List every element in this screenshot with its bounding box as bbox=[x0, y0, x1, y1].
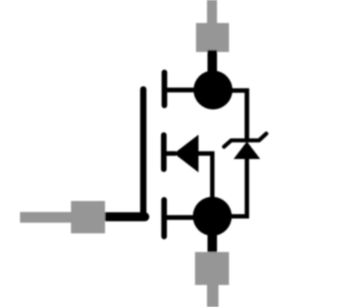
node source junction (bottom dot) bbox=[193, 197, 232, 236]
transistor Q1 drain contact bar bbox=[162, 72, 168, 105]
transistor Q1 source contact bar bbox=[161, 200, 167, 237]
transistor Q1 gate line bbox=[140, 89, 146, 214]
wire source stub bbox=[164, 215, 198, 220]
transistor Q1 body contact bar bbox=[161, 135, 167, 169]
wire body stub bbox=[164, 151, 176, 156]
body diode D1 arrow bbox=[174, 135, 199, 173]
gate terminal pin (left, gray) bbox=[20, 201, 105, 233]
wire from drain node to zener cathode bbox=[231, 91, 247, 141]
wire from top pin to drain node bbox=[208, 50, 218, 75]
drain terminal pin (top, gray) bbox=[196, 0, 229, 52]
wire from source node to bottom pin bbox=[208, 230, 218, 254]
source terminal pin (bottom, gray) bbox=[195, 252, 229, 307]
zener diode Z1 anode triangle bbox=[234, 142, 261, 160]
wire gate (thick, from gate pin) bbox=[103, 212, 145, 221]
wire drain stub bbox=[164, 88, 198, 93]
wire from zener anode to source node bbox=[230, 157, 247, 216]
node drain junction (top dot) bbox=[194, 71, 233, 110]
wire from body diode to source node bbox=[197, 154, 212, 201]
zener diode Z1 cathode bar with bent ends bbox=[224, 134, 266, 147]
